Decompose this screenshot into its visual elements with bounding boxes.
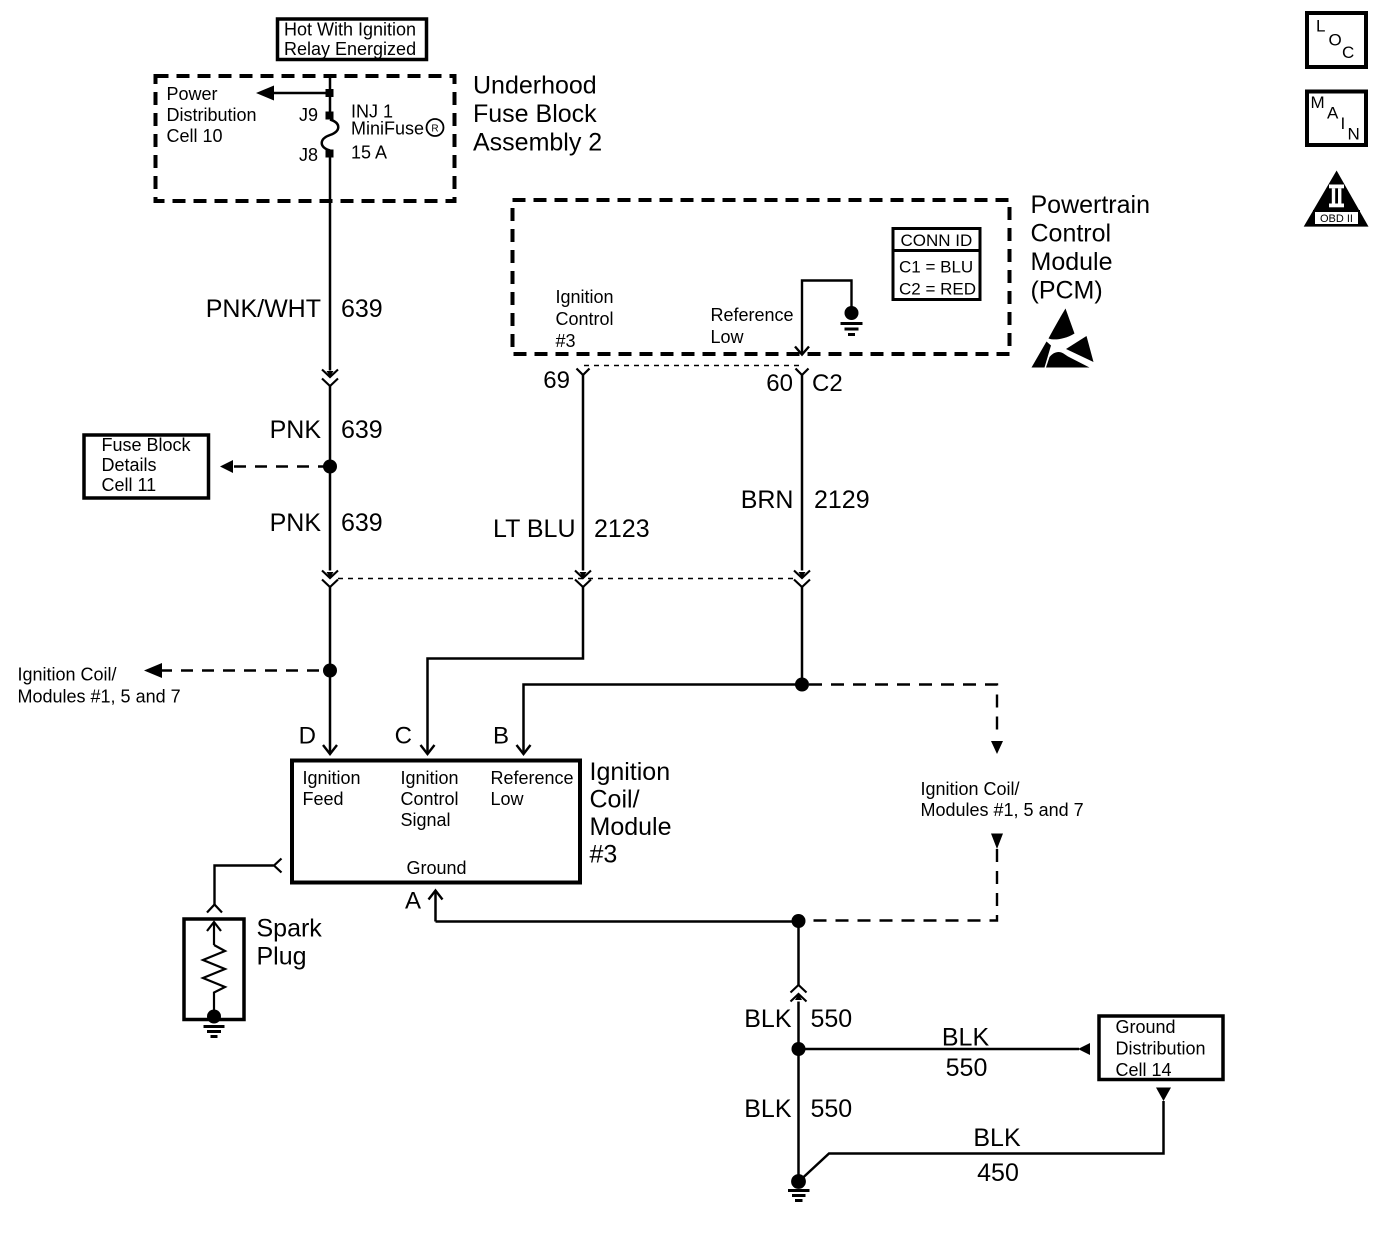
svg-text:C1 = BLU: C1 = BLU	[899, 258, 973, 277]
svg-text:PNK: PNK	[270, 509, 322, 537]
svg-text:69: 69	[543, 367, 570, 394]
spark plug ground node	[204, 1010, 225, 1037]
ignition coil module 3 title	[590, 758, 672, 869]
INJ 1 MiniFuse 15 A value label	[351, 102, 444, 163]
svg-text:Fuse Block: Fuse Block	[102, 435, 192, 455]
MAIN reference box	[1307, 92, 1366, 146]
in-line connector on BRN wire	[794, 571, 810, 588]
wire LT BLU 2123	[493, 375, 650, 571]
wire LT BLU to terminal C	[421, 587, 584, 754]
arrow to power distribution	[256, 86, 334, 101]
CONN ID table	[893, 229, 980, 300]
svg-text:BLK: BLK	[942, 1024, 990, 1052]
svg-text:BLK: BLK	[744, 1095, 792, 1123]
terminal A arrow	[405, 888, 443, 922]
dashed arrow to fuse block details	[220, 460, 326, 473]
svg-text:PNK/WHT: PNK/WHT	[206, 295, 321, 323]
in-line connector on BLK wire	[791, 985, 807, 1002]
svg-text:Ignition: Ignition	[590, 758, 671, 786]
dashed arrow to ignition coil modules left	[144, 663, 325, 678]
svg-text:Control: Control	[401, 789, 459, 809]
svg-text:Power: Power	[167, 84, 218, 104]
wire ground A to junction	[436, 920, 799, 923]
junction node ground wire	[792, 914, 806, 928]
reference low wire with chassis ground inside PCM	[795, 281, 863, 355]
svg-text:Cell 14: Cell 14	[1116, 1060, 1172, 1080]
junction node PNK to fuse block details	[323, 460, 337, 474]
svg-text:OBD II: OBD II	[1320, 213, 1353, 225]
LOC reference box	[1307, 13, 1366, 67]
svg-text:Ground: Ground	[1116, 1017, 1176, 1037]
svg-text:550: 550	[811, 1005, 853, 1033]
svg-text:Coil/: Coil/	[590, 786, 640, 814]
svg-text:550: 550	[811, 1095, 853, 1123]
svg-text:60: 60	[766, 370, 793, 397]
svg-text:#3: #3	[556, 331, 576, 351]
svg-text:Reference: Reference	[491, 768, 574, 788]
svg-text:PNK: PNK	[270, 416, 322, 444]
svg-text:Low: Low	[711, 327, 745, 347]
spark plug connector at coil	[207, 859, 282, 913]
wire PNK/WHT 639	[206, 158, 383, 371]
svg-text:I: I	[1341, 114, 1346, 133]
connector terminal 69	[543, 367, 589, 394]
svg-text:MiniFuse: MiniFuse	[351, 119, 424, 139]
svg-text:D: D	[299, 723, 316, 750]
svg-text:Hot With Ignition: Hot With Ignition	[284, 20, 416, 40]
wire BLK 550 to ground junction	[744, 1002, 852, 1050]
svg-text:Underhood: Underhood	[473, 72, 597, 100]
svg-text:Feed: Feed	[303, 789, 344, 809]
svg-text:Control: Control	[556, 309, 614, 329]
svg-text:Plug: Plug	[257, 943, 307, 971]
svg-text:Cell 10: Cell 10	[167, 126, 223, 146]
spark plug title	[257, 915, 323, 971]
wire BRN lower to junction	[801, 587, 804, 685]
junction node BRN reference low	[795, 678, 809, 692]
svg-text:J8: J8	[299, 145, 318, 165]
svg-text:A: A	[1327, 104, 1339, 123]
svg-text:Modules #1, 5 and 7: Modules #1, 5 and 7	[921, 800, 1084, 820]
svg-text:J9: J9	[299, 105, 318, 125]
OBD II symbol	[1304, 171, 1369, 227]
svg-text:Powertrain: Powertrain	[1031, 191, 1151, 219]
svg-text:BLK: BLK	[744, 1005, 792, 1033]
svg-text:L: L	[1316, 17, 1325, 36]
powertrain control module PCM title	[1031, 191, 1151, 305]
underhood fuse block assembly 2 dashed box	[156, 76, 455, 201]
wire PNK 639 lower label	[270, 509, 383, 537]
underhood fuse block assembly 2 title	[473, 72, 602, 157]
connector terminal 60 C2	[766, 369, 842, 398]
svg-text:Ignition: Ignition	[303, 768, 361, 788]
wire PNK 639 upper	[270, 386, 383, 571]
wire BRN 2129	[741, 375, 870, 571]
terminal labels D C B	[299, 723, 509, 750]
svg-text:Spark: Spark	[257, 915, 323, 943]
spark plug gap arrow	[207, 922, 221, 945]
ground G103	[788, 1174, 810, 1200]
svg-text:BLK: BLK	[973, 1124, 1021, 1152]
svg-text:N: N	[1348, 125, 1360, 144]
svg-text:R: R	[431, 124, 438, 135]
svg-text:Distribution: Distribution	[1116, 1039, 1206, 1059]
svg-text:A: A	[405, 888, 421, 915]
fuse block details cell 11 box	[84, 435, 209, 498]
PCM dashed box	[513, 200, 1010, 354]
svg-text:Module: Module	[590, 813, 672, 841]
junction node ignition feed branch	[323, 664, 337, 678]
wire BLK 450 from ground distribution	[802, 1088, 1172, 1188]
svg-text:(PCM): (PCM)	[1031, 277, 1103, 305]
svg-text:Relay Energized: Relay Energized	[284, 39, 416, 59]
svg-text:Control: Control	[1031, 220, 1112, 248]
svg-text:2123: 2123	[594, 515, 650, 543]
svg-text:Modules #1, 5 and 7: Modules #1, 5 and 7	[18, 687, 181, 707]
svg-text:CONN ID: CONN ID	[901, 231, 973, 250]
svg-text:O: O	[1329, 31, 1342, 50]
in-line connector on feed wire	[322, 370, 338, 387]
svg-text:Assembly 2: Assembly 2	[473, 129, 602, 157]
wire ignition feed upper segment	[329, 76, 332, 115]
svg-text:15 A: 15 A	[351, 143, 387, 163]
svg-text:2129: 2129	[814, 486, 870, 514]
svg-text:639: 639	[341, 509, 383, 537]
connector row dashed line at PCM	[584, 365, 801, 367]
svg-text:Details: Details	[102, 455, 157, 475]
svg-text:Ignition Coil/: Ignition Coil/	[921, 779, 1020, 799]
ignition coil modules 1 5 7 label left	[18, 665, 181, 707]
svg-text:LT BLU: LT BLU	[493, 515, 575, 543]
in-line connector on LT BLU wire	[575, 571, 591, 588]
ignition coil modules 1 5 7 label right	[921, 779, 1084, 820]
svg-text:550: 550	[946, 1054, 988, 1082]
connector row dashed line mid	[338, 578, 794, 580]
ground distribution cell 14 box	[1099, 1016, 1223, 1080]
wire BLK 550 to ground distribution	[799, 1024, 1091, 1083]
junction node BLK distribution	[792, 1042, 806, 1056]
svg-text:Ground: Ground	[407, 858, 467, 878]
svg-text:Ignition Coil/: Ignition Coil/	[18, 665, 117, 685]
wire BLK 550 upper	[797, 921, 800, 986]
ignition control #3 label	[556, 287, 614, 351]
spark plug resistor element	[203, 945, 225, 1013]
wire BLK 550 lower	[744, 1049, 852, 1175]
svg-text:M: M	[1311, 93, 1325, 112]
wire reference low to terminal B	[517, 685, 803, 755]
power distribution cell 10 label	[167, 84, 257, 146]
svg-text:450: 450	[977, 1159, 1019, 1187]
svg-text:C2 = RED: C2 = RED	[899, 280, 976, 299]
svg-text:639: 639	[341, 295, 383, 323]
label box Hot With Ignition Relay Energized	[278, 19, 427, 60]
svg-text:Ignition: Ignition	[556, 287, 614, 307]
svg-text:Fuse Block: Fuse Block	[473, 100, 597, 128]
svg-text:C: C	[395, 723, 412, 750]
dashed branch right lower from ignition coil modules	[809, 834, 1004, 921]
svg-text:C2: C2	[812, 370, 843, 397]
fuse INJ 1 J9 J8	[299, 105, 338, 165]
svg-text:C: C	[1342, 43, 1354, 62]
reference low label	[711, 305, 794, 347]
svg-text:Ignition: Ignition	[401, 768, 459, 788]
svg-text:Cell 11: Cell 11	[102, 475, 157, 495]
svg-text:639: 639	[341, 416, 383, 444]
in-line connector on PNK wire	[322, 571, 338, 588]
spark plug box	[184, 919, 244, 1020]
svg-text:BRN: BRN	[741, 486, 794, 514]
svg-text:B: B	[493, 723, 509, 750]
svg-text:Module: Module	[1031, 248, 1113, 276]
svg-text:Low: Low	[491, 789, 525, 809]
ESD sensitivity symbol	[1032, 309, 1094, 368]
wire PNK to junctions and terminal D	[323, 587, 337, 754]
dashed branch right upper to ignition coil modules	[809, 685, 1003, 755]
svg-text:#3: #3	[590, 841, 618, 869]
svg-text:Reference: Reference	[711, 305, 794, 325]
ignition coil module 3 box	[292, 761, 580, 883]
svg-text:Distribution: Distribution	[167, 105, 257, 125]
svg-text:Signal: Signal	[401, 810, 451, 830]
